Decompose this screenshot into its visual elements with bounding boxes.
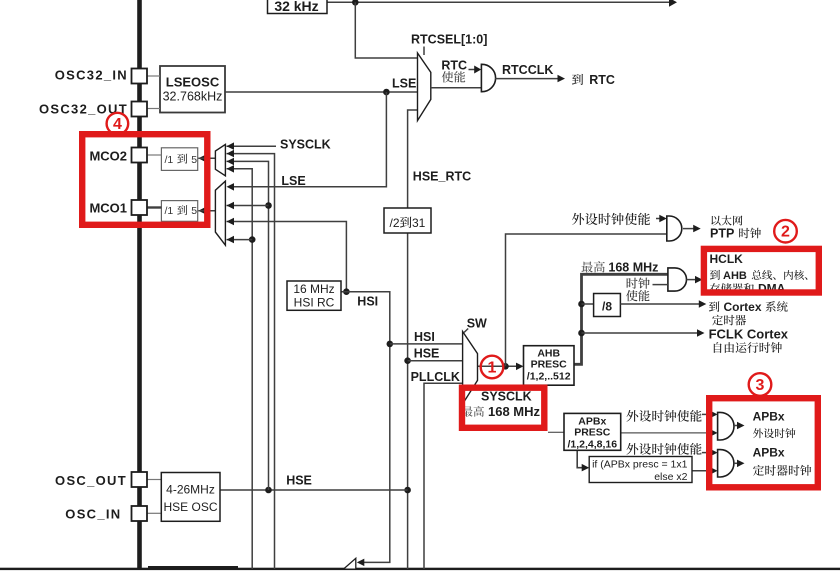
- svg-text:RTC: RTC: [441, 59, 467, 73]
- svg-text:APBx: APBx: [753, 446, 785, 460]
- svg-text:OSC32_IN: OSC32_IN: [55, 68, 128, 83]
- svg-text:OSC_IN: OSC_IN: [65, 507, 121, 522]
- svg-text:2: 2: [781, 224, 790, 241]
- svg-text:168 MHz: 168 MHz: [488, 404, 541, 419]
- svg-text:168 MHz: 168 MHz: [608, 261, 658, 275]
- svg-text:5: 5: [191, 205, 197, 217]
- svg-text:HSI: HSI: [414, 330, 435, 344]
- svg-text:HSE OSC: HSE OSC: [163, 500, 217, 514]
- svg-text:else x2: else x2: [654, 471, 687, 483]
- svg-text:PRESC: PRESC: [531, 358, 568, 370]
- svg-text:HSI RC: HSI RC: [294, 296, 335, 310]
- svg-text:31: 31: [412, 216, 426, 230]
- svg-text:LSEOSC: LSEOSC: [166, 75, 220, 90]
- svg-text:PRESC: PRESC: [574, 426, 611, 438]
- svg-text:HSE: HSE: [414, 347, 440, 361]
- svg-text:MCO2: MCO2: [89, 149, 127, 164]
- svg-text:AHB: AHB: [723, 270, 747, 282]
- svg-text:SYSCLK: SYSCLK: [481, 390, 532, 404]
- svg-text:RTC: RTC: [589, 73, 615, 87]
- svg-text:PLLCLK: PLLCLK: [411, 370, 460, 384]
- svg-text:/8: /8: [602, 300, 612, 314]
- svg-text:SW: SW: [467, 316, 487, 330]
- svg-text:/1: /1: [165, 154, 174, 166]
- svg-text:OSC_OUT: OSC_OUT: [55, 473, 127, 488]
- svg-text:/1,2,4,8,16: /1,2,4,8,16: [567, 438, 617, 450]
- svg-text:/1,2,..512: /1,2,..512: [527, 371, 571, 383]
- svg-text:32.768kHz: 32.768kHz: [163, 90, 223, 104]
- svg-text:HSI: HSI: [357, 294, 378, 308]
- svg-text:HSE: HSE: [286, 474, 312, 488]
- svg-text:4-26MHz: 4-26MHz: [166, 483, 215, 497]
- svg-text:LSE: LSE: [281, 174, 305, 188]
- svg-text:4: 4: [113, 116, 122, 133]
- svg-text:/2: /2: [390, 216, 400, 230]
- svg-text:LSE: LSE: [392, 76, 416, 90]
- svg-text:1: 1: [488, 359, 497, 376]
- svg-text:APBx: APBx: [753, 410, 785, 424]
- svg-text:/1: /1: [165, 205, 174, 217]
- svg-text:SYSCLK: SYSCLK: [280, 137, 331, 151]
- svg-text:Cortex: Cortex: [724, 300, 762, 314]
- svg-text:MCO1: MCO1: [89, 201, 127, 216]
- svg-text:HCLK: HCLK: [710, 252, 744, 266]
- svg-text:HSE_RTC: HSE_RTC: [413, 170, 471, 184]
- svg-text:RTCCLK: RTCCLK: [502, 63, 553, 77]
- svg-text:3: 3: [756, 377, 765, 394]
- svg-text:PTP: PTP: [710, 226, 734, 240]
- svg-text:32 kHz: 32 kHz: [274, 0, 318, 14]
- svg-text:if (APBx presc = 1x1: if (APBx presc = 1x1: [592, 459, 688, 471]
- svg-text:5: 5: [191, 154, 197, 166]
- svg-text:16 MHz: 16 MHz: [293, 282, 334, 296]
- svg-text:RTCSEL[1:0]: RTCSEL[1:0]: [411, 32, 487, 46]
- svg-text:FCLK Cortex: FCLK Cortex: [709, 326, 789, 341]
